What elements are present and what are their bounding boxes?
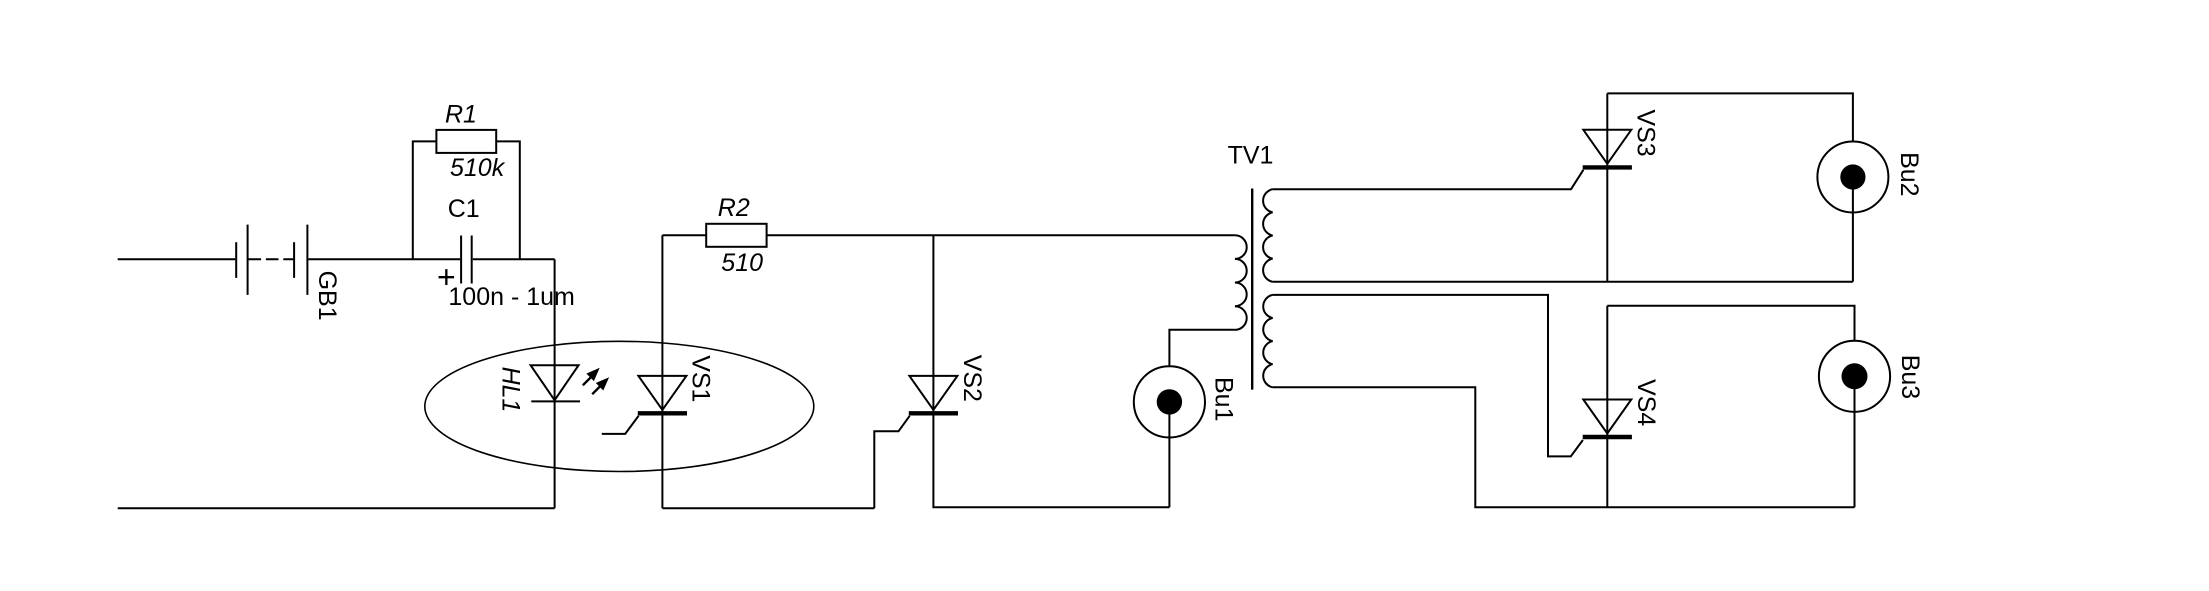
wire: VS3 anode to Bu2 (1607, 93, 1853, 141)
svg-text:VS2: VS2 (958, 355, 986, 402)
LED HL1 (531, 365, 580, 401)
LED light arrow 2 (592, 377, 609, 394)
wire: R2 right to transformer primary (767, 234, 1235, 236)
svg-text:Bu3: Bu3 (1896, 355, 1924, 399)
svg-text:510k: 510k (450, 154, 506, 182)
wire: VS1 cathode bottom rail (662, 507, 874, 509)
resistor R2 (706, 224, 766, 247)
svg-text:510: 510 (721, 249, 763, 277)
connector Bu2 (1817, 142, 1888, 282)
transformer TV1 core (1251, 189, 1253, 390)
thyristor VS1 (602, 376, 687, 434)
battery GB1 (236, 225, 307, 295)
wire: VS1 vertical branch (661, 235, 663, 508)
wire: R1 right down to main (496, 141, 520, 259)
thyristor VS2 (874, 376, 958, 508)
wire: left input top lead (118, 258, 236, 260)
svg-text:Bu2: Bu2 (1895, 152, 1923, 196)
transformer TV1 lower secondary winding (1263, 295, 1272, 387)
svg-text:R2: R2 (718, 194, 750, 222)
svg-text:Bu1: Bu1 (1210, 377, 1238, 421)
wire: VS1 top to R2 (662, 234, 706, 236)
svg-text:R1: R1 (445, 101, 477, 129)
wire: upper secondary bottom lead (1273, 281, 1853, 283)
resistor R1 (436, 130, 496, 153)
connector Bu1 (1134, 330, 1235, 507)
connector Bu3 (1819, 341, 1890, 508)
svg-text:HL1: HL1 (496, 367, 524, 413)
wire: lower secondary bottom lead to Bu3 bottom rail (1273, 387, 1855, 507)
svg-text:VS1: VS1 (686, 355, 714, 402)
svg-text:TV1: TV1 (1228, 142, 1274, 170)
thyristor VS4 (1583, 400, 1632, 438)
svg-text:C1: C1 (448, 195, 480, 223)
svg-text:VS3: VS3 (1631, 109, 1659, 156)
wire: left bottom rail (118, 507, 555, 509)
wire: lower secondary top lead to VS4 gate (1273, 295, 1583, 457)
wire: C1 right plate to HL1 branch (473, 258, 555, 260)
optocoupler ellipse (425, 341, 814, 471)
wire: HL1 vertical branch (554, 259, 556, 508)
wire: battery to C1 left plate (308, 258, 460, 260)
capacitor C1 (461, 236, 472, 284)
transformer TV1 upper secondary winding (1263, 189, 1273, 282)
svg-text:GB1: GB1 (313, 271, 341, 321)
wire: VS4 anode to Bu3 (1607, 306, 1854, 341)
wire: VS4 vertical branch (1606, 306, 1608, 507)
wire: VS3 vertical branch (1606, 93, 1608, 281)
svg-text:VS4: VS4 (1632, 379, 1660, 426)
thyristor VS3 (1583, 130, 1632, 168)
wire: junction up to R1 left (413, 141, 437, 259)
svg-text:100n - 1um: 100n - 1um (448, 283, 574, 311)
wire: upper secondary top lead to VS3 gate (1273, 170, 1584, 189)
LED light arrow 1 (583, 368, 600, 386)
wire: VS2 branch vertical and bottom to Bu1 (933, 235, 1169, 507)
transformer TV1 primary winding (1235, 235, 1247, 330)
